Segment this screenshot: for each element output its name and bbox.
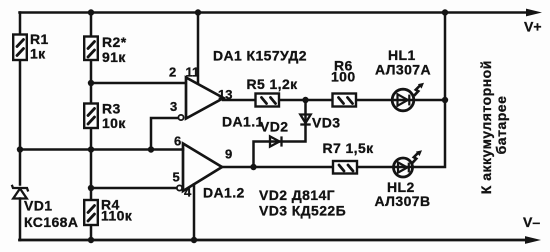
svg-text:6: 6: [174, 134, 181, 149]
svg-text:DA1.2: DA1.2: [203, 185, 245, 201]
svg-text:R7 1,5к: R7 1,5к: [323, 140, 375, 156]
svg-text:DA1 К157УД2: DA1 К157УД2: [213, 48, 307, 64]
svg-text:V–: V–: [523, 214, 540, 230]
svg-text:4: 4: [184, 185, 192, 200]
svg-text:КС168А: КС168А: [24, 214, 78, 230]
svg-text:R2*: R2*: [102, 34, 127, 50]
svg-text:5: 5: [173, 170, 180, 185]
svg-text:V+: V+: [524, 19, 542, 35]
svg-text:VD2: VD2: [260, 119, 288, 135]
svg-text:11: 11: [186, 65, 200, 80]
svg-text:VD3 КД522Б: VD3 КД522Б: [259, 203, 346, 219]
svg-text:100: 100: [331, 69, 356, 85]
svg-text:3: 3: [170, 99, 177, 114]
svg-text:10к: 10к: [102, 115, 126, 131]
svg-text:91к: 91к: [102, 49, 126, 65]
svg-text:АЛ307А: АЛ307А: [375, 62, 431, 78]
svg-text:VD2 Д814Г: VD2 Д814Г: [259, 187, 335, 203]
svg-text:13: 13: [218, 87, 232, 102]
svg-text:АЛ307В: АЛ307В: [375, 193, 431, 209]
svg-text:VD1: VD1: [24, 198, 52, 214]
svg-text:9: 9: [225, 147, 232, 162]
svg-text:DA1.1: DA1.1: [222, 114, 264, 130]
svg-text:VD3: VD3: [312, 115, 340, 131]
svg-text:1к: 1к: [30, 46, 46, 62]
svg-text:110к: 110к: [101, 208, 133, 224]
svg-text:R5 1,2к: R5 1,2к: [247, 76, 299, 92]
svg-text:2: 2: [169, 65, 176, 80]
